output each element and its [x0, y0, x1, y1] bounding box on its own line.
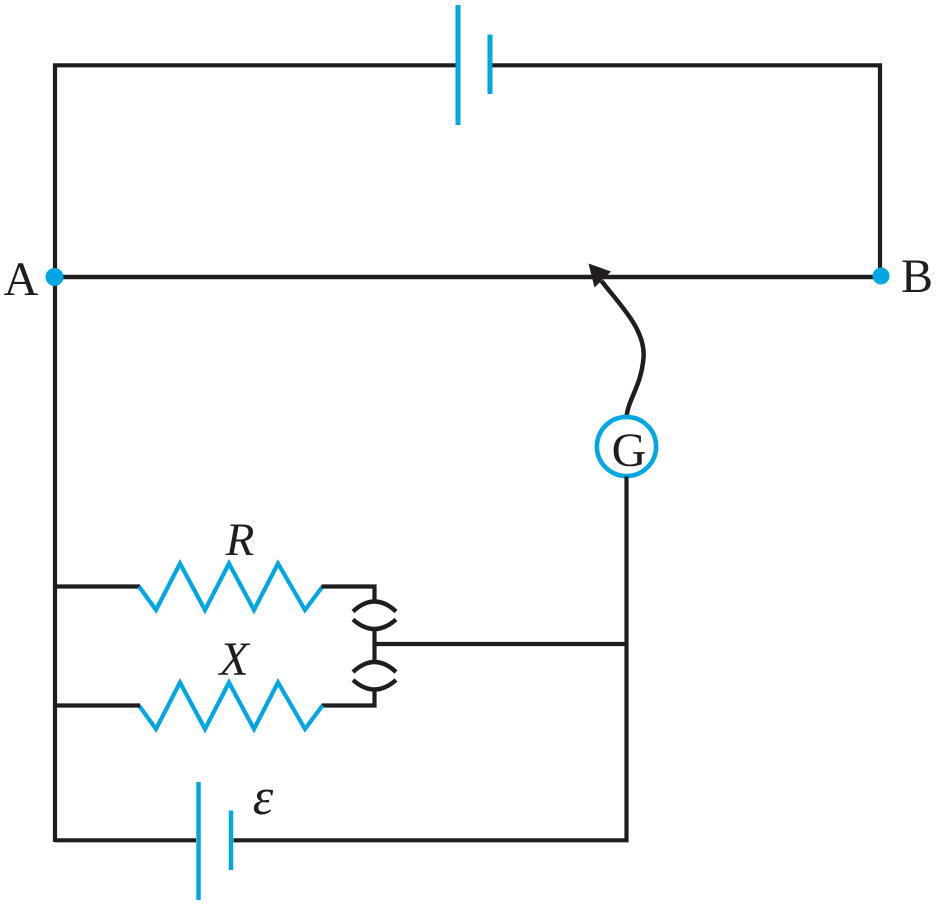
wire: potentiometer wire A to B: [55, 275, 880, 279]
battery cell ε long plate: [196, 782, 200, 900]
node B: [873, 268, 890, 285]
tap key K1 upper contact arc: [353, 602, 396, 612]
battery cell (top, driver) short plate: [488, 35, 493, 95]
wire: R branch left lead: [55, 584, 140, 588]
wire: vertical from galvanometer down to bottom wire: [624, 477, 628, 843]
wire: key column between K1 and K2: [372, 629, 376, 663]
wire: bottom wire right of cell: [234, 838, 629, 842]
wire: middle lead from key column to galvanometer branch: [375, 642, 627, 646]
galvanometer G: [597, 417, 656, 476]
svg-text:X: X: [217, 633, 250, 686]
wire: left vertical from A down to bottom: [53, 277, 57, 842]
battery cell (top, driver) long plate: [456, 5, 461, 125]
svg-text:A: A: [4, 253, 39, 306]
wire: left vertical + top wire to battery: [55, 65, 456, 279]
node A: [46, 268, 64, 286]
svg-text:B: B: [901, 250, 933, 303]
battery cell ε short plate: [229, 811, 233, 871]
tap key K2 upper contact arc: [353, 662, 396, 672]
tap key K1 lower contact arc: [353, 620, 396, 630]
wire: R branch right lead to key column: [322, 587, 375, 602]
svg-text:ε: ε: [253, 769, 274, 826]
wire: X branch left lead: [55, 703, 140, 707]
svg-text:G: G: [612, 424, 647, 477]
wire: jockey lead curve to galvanometer: [602, 281, 644, 416]
svg-text:R: R: [225, 514, 255, 566]
wire: top wire from battery to right vertical down to B: [493, 65, 881, 276]
tap key K2 lower contact arc: [353, 680, 396, 690]
resistor X: [139, 683, 323, 730]
wire: bottom wire left of cell: [55, 838, 196, 842]
wire: key column below K2 to X branch: [322, 690, 375, 706]
jockey arrow head: [589, 264, 612, 288]
resistor R: [139, 564, 323, 611]
